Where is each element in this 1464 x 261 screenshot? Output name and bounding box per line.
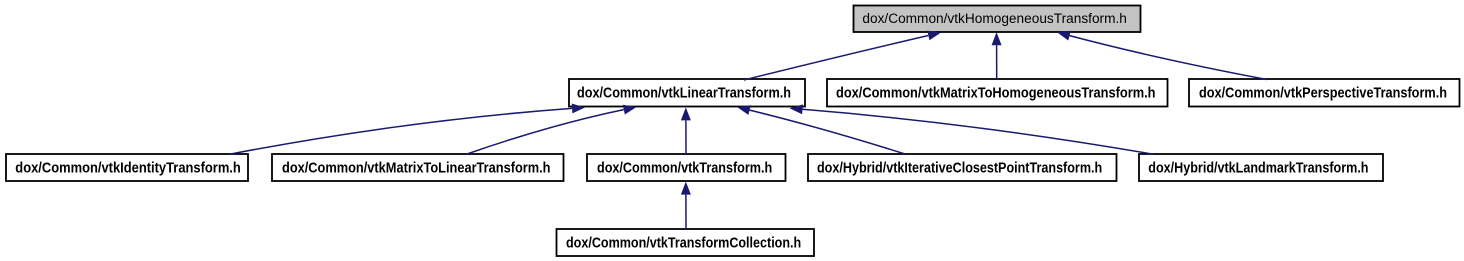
node U4: dox/Common/vtkPerspectiveTransform.h <box>1189 79 1460 107</box>
edge vtkIdentityTransform.h -&gt; vtkLinearTransform.h <box>229 104 585 155</box>
svg-text:dox/Common/vtkPerspectiveTrans: dox/Common/vtkPerspectiveTransform.h <box>1199 86 1447 102</box>
node U5: dox/Common/vtkIdentityTransform.h <box>6 154 248 181</box>
edge vtkLandmarkTransform.h -&gt; vtkLinearTransform.h <box>790 104 1154 154</box>
edge vtkPerspectiveTransform.h -&gt; vtkHomogeneousTransform.h <box>1057 31 1267 80</box>
edge vtkMatrixToLinearTransform.h -&gt; vtkLinearTransform.h <box>467 105 637 154</box>
svg-text:dox/Common/vtkTransformCollect: dox/Common/vtkTransformCollection.h <box>566 236 801 252</box>
node U9: dox/Hybrid/vtkLandmarkTransform.h <box>1139 154 1383 181</box>
node U10: dox/Common/vtkTransformCollection.h <box>557 229 815 256</box>
svg-text:dox/Common/vtkIdentityTransfor: dox/Common/vtkIdentityTransform.h <box>15 161 241 177</box>
edge vtkTransformCollection.h -&gt; vtkTransform.h <box>681 182 691 229</box>
edge vtkTransform.h -&gt; vtkLinearTransform.h <box>681 107 691 154</box>
svg-text:dox/Hybrid/vtkLandmarkTransfor: dox/Hybrid/vtkLandmarkTransform.h <box>1148 161 1368 177</box>
svg-text:dox/Common/vtkMatrixToLinearTr: dox/Common/vtkMatrixToLinearTransform.h <box>282 161 551 177</box>
svg-text:dox/Common/vtkTransform.h: dox/Common/vtkTransform.h <box>597 161 772 177</box>
svg-text:dox/Common/vtkMatrixToHomogene: dox/Common/vtkMatrixToHomogeneousTransfo… <box>836 86 1156 102</box>
node U1: dox/Common/vtkHomogeneousTransform.h <box>854 6 1141 33</box>
svg-text:dox/Hybrid/vtkIterativeClosest: dox/Hybrid/vtkIterativeClosestPointTrans… <box>817 161 1102 177</box>
svg-text:dox/Common/vtkHomogeneousTrans: dox/Common/vtkHomogeneousTransform.h <box>862 11 1127 26</box>
node U6: dox/Common/vtkMatrixToLinearTransform.h <box>272 154 564 181</box>
edge vtkMatrixToHomogeneousTransform.h -&gt; vtkHomogeneousTransform.h <box>992 32 1002 79</box>
edge vtkIterativeClosestPointTransform.h -&gt; vtkLinearTransform.h <box>737 105 905 154</box>
node U8: dox/Hybrid/vtkIterativeClosestPointTransform.h <box>808 154 1117 181</box>
node U7: dox/Common/vtkTransform.h <box>587 154 786 181</box>
node U3: dox/Common/vtkMatrixToHomogeneousTransform.h <box>827 79 1168 107</box>
node U2: dox/Common/vtkLinearTransform.h <box>569 79 805 107</box>
edge vtkLinearTransform.h -&gt; vtkHomogeneousTransform.h <box>744 31 941 80</box>
svg-text:dox/Common/vtkLinearTransform.: dox/Common/vtkLinearTransform.h <box>577 86 791 102</box>
